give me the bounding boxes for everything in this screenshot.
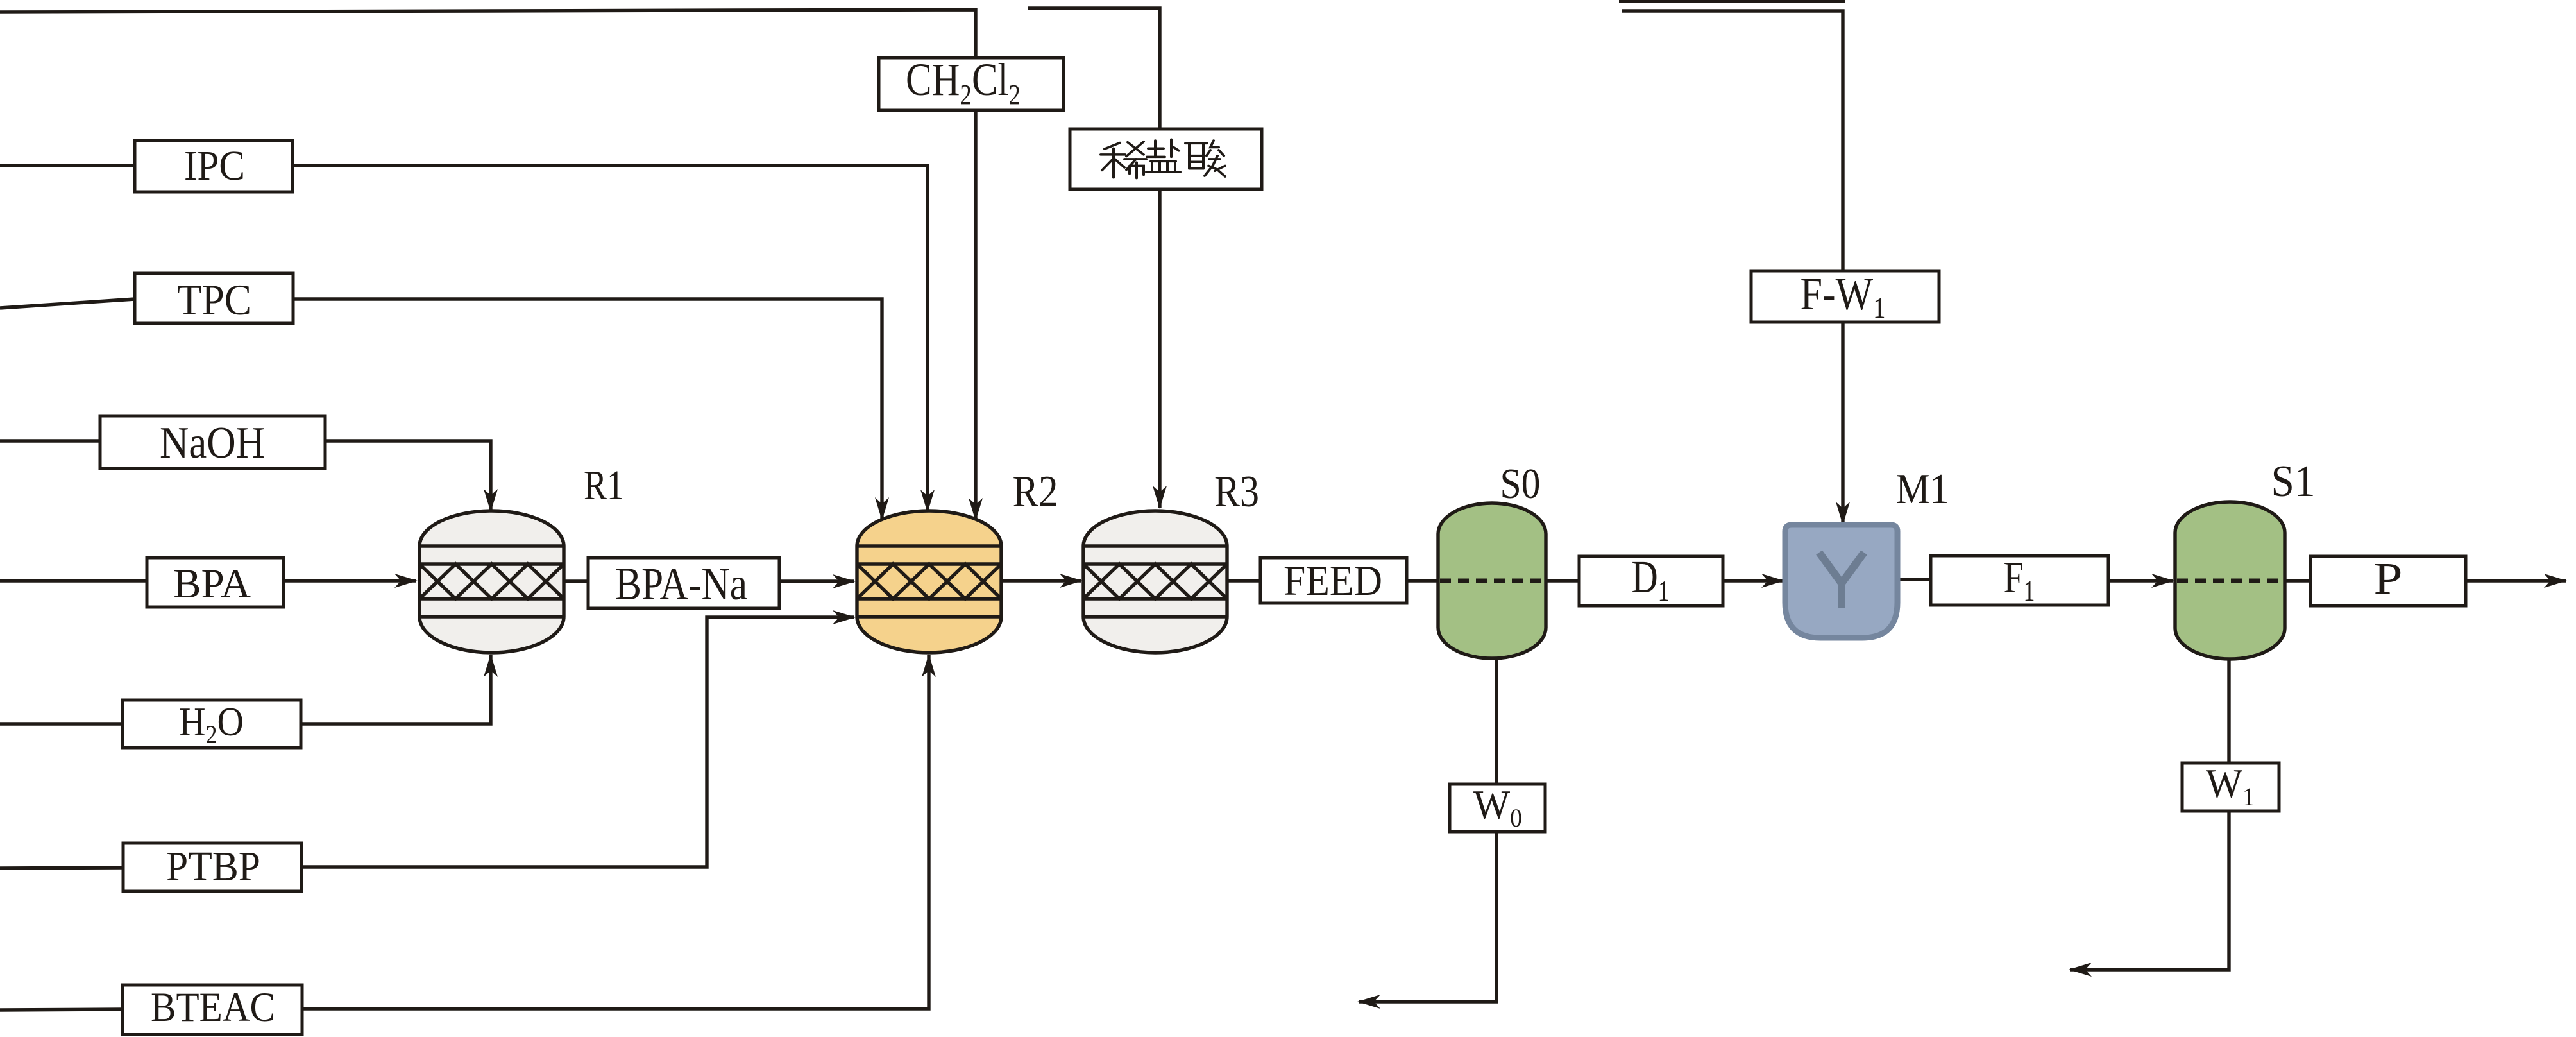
label box IPC — [135, 141, 292, 192]
wire F1 box to S1 — [2108, 579, 2173, 582]
label box FEED — [1260, 558, 1407, 603]
wire S1 to P box — [2285, 579, 2310, 582]
svg-text:BPA-Na: BPA-Na — [615, 558, 747, 610]
svg-text:R2: R2 — [1013, 467, 1058, 517]
wire H2O feed into R1 bottom — [0, 655, 491, 724]
svg-text:PTBP: PTBP — [166, 843, 260, 890]
reactor R2 — [857, 511, 1001, 653]
wire top header into R2 — [0, 10, 976, 520]
wire PTBP feed into R2 — [0, 617, 854, 868]
label box BPA-Na — [588, 558, 779, 608]
wire FEED box to S0 — [1407, 579, 1438, 582]
text dilute hydrochloric acid (hand-drawn CJK: xi yan suan) — [1101, 139, 1225, 178]
wire top-right clipped segment — [1619, 0, 1845, 3]
wire BPA feed into R1 — [0, 579, 416, 582]
label box F1 — [1931, 556, 2108, 605]
label box BPA — [147, 558, 284, 607]
wire dilute-HCl header into R3 — [1028, 8, 1160, 508]
svg-text:FEED: FEED — [1284, 557, 1382, 604]
svg-text:F-W1: F-W1 — [1801, 268, 1886, 324]
glyph xi — [1101, 142, 1146, 178]
wire M1 to F1 box — [1897, 578, 1931, 581]
label box PTBP — [123, 843, 301, 891]
label box H2O — [123, 700, 301, 748]
separator S0 — [1438, 503, 1546, 658]
label box CH2Cl2 — [879, 58, 1063, 110]
reactor R3 — [1083, 511, 1227, 653]
wire S0 bottoms to W0 and waste outlet — [1359, 658, 1496, 1002]
wire D1 box to M1 — [1723, 579, 1783, 582]
svg-text:IPC: IPC — [184, 142, 245, 189]
reactor R1 — [419, 511, 564, 653]
label box F-W1 — [1751, 271, 1939, 322]
wire R3 to FEED box — [1227, 579, 1260, 582]
mixer M1 — [1785, 525, 1897, 638]
glyph yan — [1146, 139, 1180, 172]
svg-text:S0: S0 — [1500, 460, 1541, 508]
svg-text:BTEAC: BTEAC — [151, 984, 275, 1031]
label box NaOH — [100, 416, 325, 468]
svg-text:BPA: BPA — [173, 561, 251, 607]
wire S1 bottoms to W1 and waste outlet — [2070, 659, 2229, 970]
label box TPC — [135, 273, 293, 323]
label box D1 — [1579, 556, 1723, 606]
label box P — [2310, 556, 2466, 606]
svg-text:R3: R3 — [1214, 467, 1259, 517]
svg-text:R1: R1 — [584, 462, 624, 509]
separator S1 — [2175, 502, 2285, 659]
wire P box to product outlet — [2466, 579, 2566, 582]
glyph suan — [1185, 141, 1225, 176]
wire BTEAC feed into R2 bottom — [0, 655, 929, 1010]
wire S0 to D1 box — [1546, 579, 1579, 582]
svg-text:S1: S1 — [2271, 457, 2316, 506]
svg-text:NaOH: NaOH — [160, 418, 265, 468]
wire TPC feed into R2 — [0, 299, 882, 519]
svg-text:P: P — [2374, 554, 2403, 604]
wire NaOH feed into R1 — [0, 441, 491, 511]
svg-text:M1: M1 — [1896, 465, 1949, 513]
label box W0 — [1450, 784, 1545, 832]
svg-text:TPC: TPC — [177, 275, 251, 324]
label box BTEAC — [123, 985, 302, 1034]
wire BPA-Na into R2 — [564, 579, 854, 583]
wire recycle header into F-W1 and M1 — [1622, 11, 1843, 524]
label box W1 — [2182, 763, 2279, 811]
label box dilute HCl — [1070, 129, 1262, 189]
wire R2 to R3 — [1001, 579, 1081, 582]
wire IPC feed into R2 — [0, 166, 928, 511]
